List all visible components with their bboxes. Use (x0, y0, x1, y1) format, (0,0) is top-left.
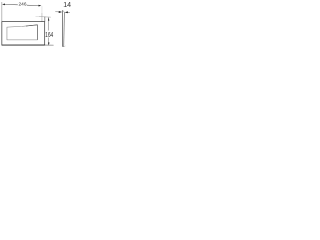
dimension 14: right tail line (67, 11, 70, 13)
side view top cap (63, 10, 65, 12)
dimension 164: corner extension vline (44, 17, 46, 22)
front view outer rect (plate outline) (2, 22, 45, 45)
dimension 14: left tail line (55, 11, 58, 13)
dimension 164: vertical dimension line upper segment (48, 17, 50, 30)
dimension 246: right arrowhead (39, 5, 42, 7)
inner panel darker top-right edge (26, 25, 37, 40)
side view right edge (63, 12, 66, 47)
dimension 164: up arrowhead (48, 17, 49, 20)
background (0, 0, 75, 56)
front view outer rect bottom edge emphasis (2, 44, 45, 46)
dimension 14: right arrowhead (65, 11, 68, 13)
dimension 164: vertical dimension line lower segment (48, 38, 50, 46)
dimension 164: down arrowhead (48, 43, 50, 46)
dimension 246: dimension line left segment (5, 3, 18, 5)
side view bottom cap (63, 46, 64, 48)
front view inner recessed panel (perspective) (7, 25, 37, 40)
side view left edge (62, 10, 64, 46)
dimension 14: left arrowhead (59, 11, 62, 13)
dimension 246: dimension line right segment (27, 4, 39, 6)
dimension 246: faint right extension line (41, 6, 43, 13)
svg-text:164: 164 (45, 32, 53, 39)
svg-text:246: 246 (19, 2, 27, 8)
dimension 246: left extension line (1, 2, 3, 22)
svg-text:14: 14 (63, 2, 71, 9)
dimension 246: left arrowhead (2, 3, 5, 5)
dimension 164: bottom extension line (45, 44, 54, 46)
dimension 164: top extension line (39, 16, 51, 19)
